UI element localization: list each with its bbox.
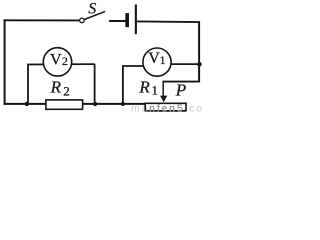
svg-text:S: S	[88, 0, 96, 17]
wire: wiper arrow shaft	[162, 82, 164, 97]
wiper arrowhead	[160, 96, 167, 103]
wire: V2 horizontal wire	[27, 63, 95, 65]
rheostat R1 box bottom edge (under watermark, becomes dashed)	[145, 110, 186, 112]
junction dot V2 left on bottom wire	[25, 102, 29, 106]
svg-text:R: R	[50, 77, 62, 96]
svg-text:V: V	[148, 50, 160, 67]
wire: V1 left horizontal wire	[122, 65, 146, 67]
svg-text:2: 2	[63, 84, 69, 99]
svg-text:2: 2	[62, 54, 68, 68]
voltmeter V1 circle	[143, 48, 171, 76]
svg-text:V: V	[50, 52, 62, 69]
wire: right vertical wire	[198, 21, 200, 82]
svg-text:1: 1	[160, 53, 166, 67]
wire: top wire left segment	[4, 19, 80, 21]
junction dot V2 right on bottom wire	[93, 102, 97, 106]
switch S lever	[84, 11, 105, 19]
wire: slider feed wire from right wire to wiper	[163, 81, 201, 83]
wire: V2 right branch vertical	[94, 64, 96, 104]
junction dot V1 right on right wire	[197, 62, 202, 67]
wire: top wire right segment (battery to right corner)	[137, 20, 200, 23]
rheostat R1 box top/left/right edges	[145, 103, 186, 111]
svg-text:1: 1	[152, 83, 159, 98]
resistor R2 box	[46, 100, 83, 109]
wire: V1 left branch vertical	[122, 66, 124, 104]
battery positive plate (long thin)	[135, 4, 137, 34]
battery negative plate (short thick)	[125, 13, 129, 27]
svg-text:R: R	[138, 77, 150, 96]
junction dot V1 left on bottom wire	[121, 102, 125, 106]
wire: bottom wire	[4, 103, 146, 105]
wire: V1 right horizontal wire	[166, 63, 199, 65]
switch S hinge circle	[80, 18, 85, 23]
wire: V2 left branch vertical	[27, 65, 29, 104]
wire: top wire middle segment (switch to battery)	[109, 20, 125, 22]
wire: left vertical wire	[4, 19, 6, 104]
svg-text:P: P	[175, 81, 186, 100]
voltmeter V2 circle	[43, 48, 71, 76]
